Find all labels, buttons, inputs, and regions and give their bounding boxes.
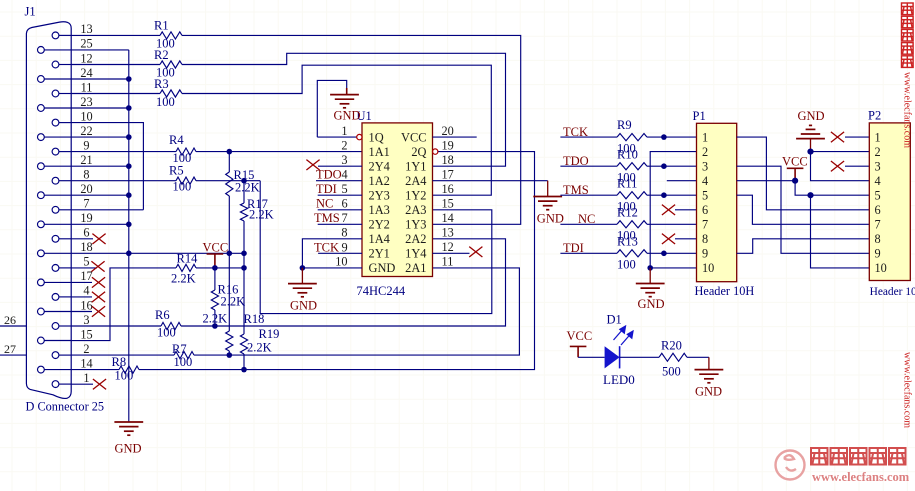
J1 pin 18 bbox=[38, 250, 45, 257]
svg-text:VCC: VCC bbox=[782, 155, 808, 169]
svg-text:23: 23 bbox=[80, 95, 92, 109]
svg-text:LED0: LED0 bbox=[603, 372, 635, 387]
wire P1 pin 4 stub bbox=[667, 180, 697, 182]
svg-text:2: 2 bbox=[83, 342, 89, 356]
svg-text:R19: R19 bbox=[259, 327, 280, 341]
svg-text:J1: J1 bbox=[25, 5, 36, 19]
svg-text:3: 3 bbox=[875, 160, 881, 174]
svg-text:100: 100 bbox=[174, 355, 193, 369]
node R4/R15 bbox=[227, 149, 233, 155]
node P1 pin 10 GND bbox=[647, 265, 653, 271]
wire GND to P2 pin 4 bbox=[811, 152, 870, 181]
resistor R1 bbox=[160, 32, 182, 39]
wire R6 to U1 pin 13 bbox=[181, 239, 506, 326]
svg-text:26: 26 bbox=[4, 313, 16, 327]
svg-text:11: 11 bbox=[442, 255, 454, 269]
svg-text:R5: R5 bbox=[169, 164, 184, 178]
svg-text:20: 20 bbox=[80, 182, 92, 196]
wire J1 pin 2 to R7 bbox=[71, 354, 174, 356]
svg-text:2: 2 bbox=[702, 145, 708, 159]
wire R15 to row18 bbox=[228, 196, 230, 331]
svg-text:2Y1: 2Y1 bbox=[369, 247, 390, 261]
svg-text:D1: D1 bbox=[607, 313, 622, 327]
svg-text:1Q: 1Q bbox=[369, 130, 384, 144]
wire TDO to R10 bbox=[560, 165, 617, 167]
resistor R5 bbox=[176, 177, 196, 184]
svg-text:1A1: 1A1 bbox=[369, 145, 390, 159]
J1 pin 1 bbox=[52, 381, 59, 388]
svg-text:R20: R20 bbox=[661, 338, 682, 352]
wire P1 pin 5 (TMS) to P2 pin 7 bbox=[737, 195, 870, 224]
svg-text:1: 1 bbox=[83, 371, 89, 385]
wire TMS to R11 bbox=[560, 194, 617, 196]
wire VCC to P2 pin 5 and pin 10 bbox=[795, 181, 869, 196]
no-connect J1 pin 17 bbox=[71, 281, 92, 283]
J1 pin 6 bbox=[52, 235, 59, 242]
svg-text:13: 13 bbox=[442, 226, 454, 240]
resistor R12 bbox=[617, 221, 647, 228]
svg-text:5: 5 bbox=[342, 182, 348, 196]
wire J1 pin 13 to R1 bbox=[71, 34, 160, 36]
wire U1 pin 10 bbox=[302, 267, 362, 269]
J1 pin 4 bbox=[52, 294, 59, 301]
svg-text:16: 16 bbox=[80, 298, 92, 312]
resistor R10 bbox=[617, 163, 647, 170]
wire R16 to J1 pin3 row bbox=[214, 310, 216, 326]
node row18/R17 bbox=[241, 251, 247, 257]
wire GND to P2 pin 2 bbox=[811, 151, 870, 153]
J1 pin 24 bbox=[38, 76, 45, 83]
svg-text:TCK: TCK bbox=[314, 240, 339, 254]
svg-text:TMS: TMS bbox=[314, 211, 340, 225]
svg-text:2A2: 2A2 bbox=[405, 232, 426, 246]
svg-text:GND: GND bbox=[638, 297, 665, 311]
svg-text:1Y3: 1Y3 bbox=[405, 218, 426, 232]
J1 pin 19 bbox=[38, 221, 45, 228]
svg-text:R9: R9 bbox=[617, 118, 632, 132]
svg-text:12: 12 bbox=[442, 240, 454, 254]
wire U1 pin 17 to GND bbox=[433, 180, 548, 182]
connector J1 body bbox=[26, 22, 71, 399]
svg-text:Header 10H: Header 10H bbox=[695, 284, 755, 298]
svg-text:2Y2: 2Y2 bbox=[369, 218, 390, 232]
svg-text:9: 9 bbox=[702, 247, 708, 261]
svg-text:1A4: 1A4 bbox=[369, 232, 390, 246]
svg-text:5: 5 bbox=[83, 255, 89, 269]
svg-text:14: 14 bbox=[80, 356, 92, 370]
wire P1 pin 4 (VCC) row bbox=[737, 180, 795, 182]
wire R10 to P1 pin 3 bbox=[647, 165, 697, 167]
svg-text:3: 3 bbox=[341, 153, 347, 167]
no-connect P1 pin 8 bbox=[675, 238, 697, 240]
svg-text:27: 27 bbox=[4, 342, 16, 356]
no-connect J1 pin 16 bbox=[71, 311, 92, 313]
wire TCK to R9 bbox=[560, 136, 617, 138]
svg-text:R10: R10 bbox=[617, 147, 638, 161]
svg-text:GND: GND bbox=[695, 385, 722, 399]
resistor R11 bbox=[617, 192, 647, 199]
svg-text:74HC244: 74HC244 bbox=[357, 284, 406, 298]
watermark bottom logo bbox=[776, 451, 805, 480]
header P2 body bbox=[869, 123, 910, 281]
J1 pin 8 bbox=[52, 177, 59, 184]
svg-text:19: 19 bbox=[442, 138, 454, 152]
svg-text:NC: NC bbox=[316, 197, 333, 211]
svg-text:7: 7 bbox=[83, 197, 89, 211]
node P2 pin 5 bbox=[807, 192, 813, 198]
svg-text:6: 6 bbox=[83, 226, 89, 240]
wire U1 pin 8 to pin 10 junction bbox=[302, 239, 362, 268]
svg-text:R11: R11 bbox=[617, 176, 637, 190]
svg-text:R7: R7 bbox=[172, 342, 187, 356]
svg-text:www.elecfans.com: www.elecfans.com bbox=[902, 352, 913, 428]
svg-text:GND: GND bbox=[290, 299, 317, 313]
J1 pin 5 bbox=[52, 265, 59, 272]
wire J1 pin 3 to R6 bbox=[71, 325, 161, 327]
svg-text:1: 1 bbox=[341, 124, 347, 138]
node U1 pin 10 GND bbox=[300, 265, 306, 271]
J1 pin 15 bbox=[38, 337, 45, 344]
ground symbol below P1 bbox=[649, 268, 651, 284]
net label TMS / U1 pin 7 stub bbox=[318, 223, 362, 225]
svg-text:19: 19 bbox=[80, 211, 92, 225]
net 27 stub bbox=[0, 354, 26, 356]
wire P1 pin 3 (TDO) to P2 pin 9 bbox=[737, 166, 870, 253]
wire GND rail from J1 pin 25 bbox=[71, 49, 129, 51]
svg-text:1A2: 1A2 bbox=[369, 174, 390, 188]
svg-text:2Q: 2Q bbox=[411, 145, 426, 159]
svg-text:2.2K: 2.2K bbox=[247, 341, 272, 355]
svg-text:17: 17 bbox=[80, 269, 92, 283]
svg-text:www.elecfans.com: www.elecfans.com bbox=[902, 72, 913, 148]
J1 pin 11 bbox=[52, 90, 59, 97]
svg-text:13: 13 bbox=[80, 22, 92, 36]
svg-text:2A3: 2A3 bbox=[405, 203, 426, 217]
J1 pin 20 bbox=[38, 192, 45, 199]
svg-text:P1: P1 bbox=[693, 109, 706, 123]
wire R8 to U1 pin 19 bbox=[139, 152, 535, 370]
svg-text:25: 25 bbox=[80, 37, 92, 51]
resistor R4 bbox=[176, 148, 196, 155]
junction dots on GND rail bbox=[126, 76, 132, 82]
svg-text:15: 15 bbox=[442, 197, 454, 211]
resistor R16 bbox=[214, 268, 216, 290]
ground symbol above U1 bbox=[346, 88, 348, 95]
wire J1 pin 14 to R8 bbox=[71, 369, 119, 371]
svg-text:2: 2 bbox=[875, 145, 881, 159]
svg-text:6: 6 bbox=[342, 197, 348, 211]
svg-text:100: 100 bbox=[173, 180, 192, 194]
svg-text:1Y4: 1Y4 bbox=[405, 247, 426, 261]
J1 pin 10 bbox=[52, 119, 59, 126]
wire R17 to VCC rail bbox=[243, 221, 245, 334]
svg-text:9: 9 bbox=[875, 247, 881, 261]
svg-text:1Y2: 1Y2 bbox=[405, 189, 426, 203]
svg-text:9: 9 bbox=[342, 240, 348, 254]
ground symbol at R20 bbox=[695, 370, 724, 383]
wire R1 to U1 pin 14 bbox=[182, 35, 521, 224]
svg-text:100: 100 bbox=[617, 258, 636, 272]
no-connect P2 pin 3 bbox=[845, 165, 869, 167]
svg-text:2.2K: 2.2K bbox=[235, 181, 260, 195]
svg-text:14: 14 bbox=[442, 211, 454, 225]
svg-text:2.2K: 2.2K bbox=[171, 272, 196, 286]
wire LED cathode to R20 bbox=[620, 356, 659, 358]
wire TDO riser to U1 pin 15 bbox=[260, 181, 492, 314]
J1 pin 2 bbox=[52, 352, 59, 359]
svg-text:7: 7 bbox=[702, 218, 708, 232]
LED arrows bbox=[614, 326, 634, 345]
watermark bottom chinese text bbox=[811, 448, 828, 465]
resistor R15 bbox=[228, 152, 230, 172]
svg-text:17: 17 bbox=[442, 168, 454, 182]
node VCC rail/R17 bbox=[241, 265, 247, 271]
resistor R13 bbox=[617, 250, 647, 257]
svg-text:R6: R6 bbox=[155, 308, 170, 322]
svg-text:10: 10 bbox=[702, 261, 714, 275]
node R18/R7 bbox=[227, 352, 233, 358]
node R19/R8 bbox=[241, 367, 247, 373]
node VCC/R14 bbox=[212, 265, 218, 271]
J1 pin 22 bbox=[38, 134, 45, 141]
J1 pin 16 bbox=[38, 308, 45, 315]
wire J1 pin 12 to R2 bbox=[71, 64, 160, 66]
header P1 body bbox=[697, 123, 737, 281]
wire R4 to U1 pin 2 bbox=[196, 151, 362, 153]
svg-text:8: 8 bbox=[875, 232, 881, 246]
net 26 stub bbox=[0, 325, 26, 327]
svg-text:R3: R3 bbox=[154, 77, 169, 91]
wire R18 to J1 pin2 row bbox=[228, 351, 230, 355]
resistor R14 bbox=[176, 264, 196, 271]
svg-text:5: 5 bbox=[875, 189, 881, 203]
svg-text:20: 20 bbox=[442, 124, 454, 138]
resistor R7 bbox=[174, 352, 194, 359]
J1 pin 7 bbox=[52, 206, 59, 213]
no-connect J1 pin 5 bbox=[71, 267, 97, 269]
wire R2 to U1 pin 18 bbox=[182, 53, 506, 166]
wire R5 to TDO riser bbox=[196, 180, 260, 182]
svg-text:6: 6 bbox=[875, 203, 881, 217]
no-connect J1 pin 1 bbox=[71, 383, 93, 385]
svg-text:TDI: TDI bbox=[316, 182, 337, 196]
svg-text:GND: GND bbox=[115, 442, 142, 456]
svg-text:VCC: VCC bbox=[203, 241, 229, 255]
wire NC to R12 bbox=[560, 223, 617, 225]
no-connect P2 pin 1 bbox=[845, 136, 869, 138]
svg-text:R14: R14 bbox=[177, 252, 199, 266]
svg-text:GND: GND bbox=[334, 109, 361, 123]
svg-text:1Y1: 1Y1 bbox=[405, 160, 426, 174]
svg-text:10: 10 bbox=[875, 261, 887, 275]
svg-text:4: 4 bbox=[702, 174, 708, 188]
svg-text:12: 12 bbox=[80, 51, 92, 65]
J1 pin 21 bbox=[38, 163, 45, 170]
resistor R20 bbox=[659, 353, 687, 361]
svg-text:4: 4 bbox=[342, 168, 348, 182]
ground symbol J1 rail bbox=[114, 422, 143, 435]
wire P1 pin 2 to pin 10 GND bbox=[650, 152, 696, 268]
net label NC / U1 pin 6 stub bbox=[318, 209, 362, 211]
svg-text:21: 21 bbox=[80, 153, 92, 167]
svg-text:1A3: 1A3 bbox=[369, 203, 390, 217]
svg-text:R1: R1 bbox=[154, 19, 169, 33]
LED D1 bbox=[605, 346, 620, 368]
wire R9 to P1 pin 1 bbox=[647, 136, 697, 138]
J1 pin 17 bbox=[38, 279, 45, 286]
wire R13 to P1 pin 9 bbox=[647, 252, 697, 254]
J1 pin 23 bbox=[38, 105, 45, 112]
no-connect P1 pin 6 bbox=[675, 209, 697, 211]
svg-text:R13: R13 bbox=[617, 234, 638, 248]
svg-text:24: 24 bbox=[80, 66, 92, 80]
node P2 pin 2 GND bbox=[807, 149, 813, 155]
wire J1 pin 11 to R3 bbox=[71, 93, 160, 95]
svg-text:VCC: VCC bbox=[567, 329, 593, 343]
wire P1 pin 1 (TCK) to P2 pin 6 bbox=[737, 137, 870, 210]
node R10 output bbox=[661, 163, 667, 169]
svg-text:R4: R4 bbox=[169, 133, 184, 147]
svg-text:16: 16 bbox=[442, 182, 454, 196]
svg-text:GND: GND bbox=[537, 212, 564, 226]
node R9 output bbox=[661, 134, 667, 140]
resistor R17 bbox=[243, 181, 245, 203]
svg-text:8: 8 bbox=[341, 226, 347, 240]
wire R11 to P1 pin 5 bbox=[647, 194, 697, 196]
J1 pin 12 bbox=[52, 61, 59, 68]
IC U1 74HC244 body bbox=[362, 123, 433, 277]
wire R19 to J1 pin14 row bbox=[243, 354, 245, 370]
net label TDO / U1 pin 4 stub bbox=[316, 180, 362, 182]
wire TDI to R13 bbox=[560, 252, 617, 254]
wire U1 pin 20 stub bbox=[433, 136, 477, 138]
svg-text:4: 4 bbox=[875, 174, 881, 188]
inversion bubble U1 pin 1 bbox=[357, 134, 362, 139]
wire J1 pin 9 to R4 bbox=[71, 151, 176, 153]
svg-text:3: 3 bbox=[702, 160, 708, 174]
ground symbol right of U1 bbox=[533, 197, 562, 210]
node R16/R6 bbox=[212, 323, 218, 329]
power VCC at P2 bbox=[787, 168, 804, 180]
resistor R9 bbox=[617, 134, 647, 141]
svg-text:500: 500 bbox=[662, 364, 681, 378]
svg-text:2A1: 2A1 bbox=[405, 261, 426, 275]
svg-text:2.2K: 2.2K bbox=[221, 295, 246, 309]
resistor R19 bbox=[240, 334, 247, 354]
svg-text:R2: R2 bbox=[154, 48, 169, 62]
resistor R18 bbox=[226, 331, 233, 351]
svg-text:GND: GND bbox=[798, 109, 825, 123]
resistor R2 bbox=[160, 61, 182, 68]
no-connect U1 pin 3 bbox=[318, 165, 362, 167]
wire J1 pin 10 to pin 7 bbox=[71, 123, 143, 210]
J1 pin 3 bbox=[52, 323, 59, 330]
watermark top right vertical bbox=[902, 3, 914, 15]
svg-text:TDO: TDO bbox=[316, 168, 342, 182]
svg-text:22: 22 bbox=[80, 124, 92, 138]
svg-text:15: 15 bbox=[80, 327, 92, 341]
wire R7 to U1 pin 11 bbox=[194, 268, 519, 355]
net label TDI / U1 pin 5 stub bbox=[318, 194, 362, 196]
node R5/R17 bbox=[241, 178, 247, 184]
wire J1 pin15 riser to R14 row bbox=[71, 268, 176, 341]
svg-text:100: 100 bbox=[115, 369, 134, 383]
net label TCK / U1 pin 9 stub bbox=[318, 252, 362, 254]
svg-text:VCC: VCC bbox=[401, 130, 426, 144]
wire P1 pin 9 (TDI) to P2 pin 8 bbox=[737, 239, 870, 254]
wire J1 pin18 row extension bbox=[129, 252, 244, 254]
svg-text:2A4: 2A4 bbox=[405, 174, 426, 188]
svg-text:10: 10 bbox=[335, 255, 347, 269]
wire U1 pin 1 to GND hook bbox=[317, 136, 357, 138]
svg-text:2.2K: 2.2K bbox=[249, 208, 274, 222]
svg-text:11: 11 bbox=[81, 80, 93, 94]
J1 pin 9 bbox=[52, 148, 59, 155]
svg-text:10: 10 bbox=[80, 109, 92, 123]
node VCC P2 bbox=[792, 178, 798, 184]
svg-text:GND: GND bbox=[369, 261, 396, 275]
svg-text:9: 9 bbox=[83, 138, 89, 152]
resistor R3 bbox=[160, 90, 182, 97]
node row18/R15 bbox=[227, 251, 233, 257]
svg-text:3: 3 bbox=[83, 313, 89, 327]
svg-text:5: 5 bbox=[702, 189, 708, 203]
svg-text:7: 7 bbox=[342, 211, 348, 225]
svg-text:100: 100 bbox=[157, 325, 176, 339]
inversion bubble U1 pin 19 bbox=[433, 149, 438, 154]
no-connect J1 pin 4 bbox=[71, 296, 92, 298]
svg-text:P2: P2 bbox=[868, 109, 881, 123]
no-connect J1 pin 6 bbox=[71, 238, 93, 240]
J1 pin 13 bbox=[52, 32, 59, 39]
svg-text:100: 100 bbox=[156, 95, 175, 109]
svg-text:www.elecfans.com: www.elecfans.com bbox=[812, 470, 910, 484]
svg-text:6: 6 bbox=[702, 203, 708, 217]
power VCC at R14 bbox=[207, 254, 224, 268]
svg-text:R8: R8 bbox=[112, 355, 127, 369]
svg-text:18: 18 bbox=[80, 240, 92, 254]
node R13 output bbox=[661, 251, 667, 257]
svg-text:7: 7 bbox=[875, 218, 881, 232]
svg-text:2Y4: 2Y4 bbox=[369, 160, 390, 174]
svg-text:8: 8 bbox=[83, 168, 89, 182]
node R11 output bbox=[661, 192, 667, 198]
resistor R6 bbox=[161, 322, 181, 329]
svg-text:Header 10: Header 10 bbox=[870, 286, 915, 298]
J1 pin 14 bbox=[38, 366, 45, 373]
svg-text:8: 8 bbox=[702, 232, 708, 246]
wire R14 to R17 vertical bbox=[196, 267, 244, 269]
svg-text:18: 18 bbox=[442, 153, 454, 167]
svg-text:D Connector 25: D Connector 25 bbox=[26, 400, 105, 414]
wire R20 to GND bbox=[687, 356, 709, 358]
no-connect U1 pin 12 bbox=[433, 252, 470, 254]
J1 pin 25 bbox=[38, 47, 45, 54]
svg-text:2Y3: 2Y3 bbox=[369, 189, 390, 203]
resistor R8 bbox=[119, 366, 139, 373]
svg-text:4: 4 bbox=[83, 284, 89, 298]
svg-text:2: 2 bbox=[341, 138, 347, 152]
svg-text:1: 1 bbox=[875, 130, 881, 144]
svg-text:R12: R12 bbox=[617, 205, 638, 219]
ground symbol below U1 bbox=[301, 268, 303, 284]
wire R12 to P1 pin 7 bbox=[647, 223, 697, 225]
wire VCC to LED anode bbox=[578, 356, 605, 358]
wire R3 to U1 pin 16 bbox=[182, 65, 491, 195]
svg-text:1: 1 bbox=[702, 130, 708, 144]
wire J1 pin 8 to R5 bbox=[71, 180, 176, 182]
